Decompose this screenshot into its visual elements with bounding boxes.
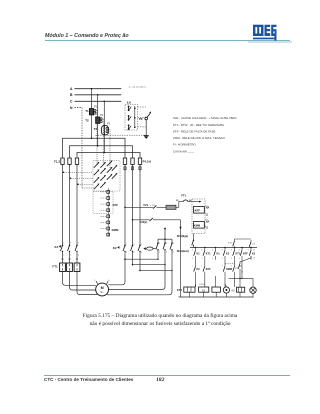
wire right branch down to motor	[107, 253, 172, 295]
junction dots on tee runs	[91, 137, 105, 153]
fuse F22 control tap	[132, 218, 153, 224]
svg-text:3 ~ 60 Hz 380 V: 3 ~ 60 Hz 380 V	[129, 86, 147, 89]
WEG logo	[253, 24, 277, 42]
svg-text:SH1(liga): SH1(liga)	[177, 234, 188, 238]
wire branches down to coils	[196, 260, 243, 287]
wire neutral dashed elbow into selector	[82, 187, 93, 189]
current transformer T1	[85, 106, 97, 115]
svg-text:CAIXA AW ____: CAIXA AW ____	[173, 149, 194, 153]
svg-text:4: 4	[192, 258, 193, 260]
svg-text:SH1(desl): SH1(desl)	[177, 249, 189, 253]
selector switch tangle dashed enclosure	[93, 161, 120, 192]
node B (phase bus B)	[70, 93, 121, 97]
svg-text:K2: K2	[226, 253, 230, 256]
node A (phase bus A)	[70, 87, 121, 91]
wire dashed links SH1 to PF terminal	[96, 107, 146, 135]
wire F22 down to control neutral rail	[153, 220, 182, 297]
svg-text:4: 4	[231, 258, 232, 260]
svg-text:1: 1	[63, 242, 64, 244]
svg-text:KT1: KT1	[177, 288, 182, 292]
svg-text:5: 5	[173, 243, 174, 245]
svg-text:3: 3	[192, 250, 193, 252]
svg-text:P1: P1	[107, 123, 111, 126]
svg-text:KMM: KMM	[226, 268, 232, 271]
svg-text:SH1 - CHAVE LIGA-DESL. + SINAL: SH1 - CHAVE LIGA-DESL. + SINAL.GHSE 18HD	[173, 116, 236, 120]
isolator switch linkage symbol	[143, 247, 155, 250]
svg-text:K1: K1	[197, 253, 201, 256]
svg-text:4: 4	[239, 258, 240, 260]
switch SH1 pole contacts	[128, 106, 136, 131]
node N (neutral, dashed)	[70, 106, 82, 110]
svg-text:KT1: KT1	[235, 268, 240, 270]
svg-text:3~: 3~	[100, 290, 104, 294]
svg-text:3: 3	[248, 250, 249, 252]
svg-text:1: 1	[222, 265, 223, 267]
wire FT1 outputs to motor	[63, 272, 98, 295]
header rule	[45, 40, 290, 41]
contactor coil K1	[199, 284, 209, 297]
wire phase B drop	[97, 94, 99, 146]
svg-text:K2: K2	[252, 253, 256, 256]
svg-text:KT1: KT1	[228, 243, 233, 245]
svg-text:P1: P1	[94, 106, 98, 109]
wire neutral dashed drop	[81, 107, 83, 188]
svg-text:1: 1	[126, 244, 127, 246]
ladder second contacts row	[192, 260, 234, 276]
svg-text:FT1: FT1	[181, 193, 186, 197]
timer coil KT1	[177, 284, 196, 297]
svg-text:K1: K1	[217, 253, 221, 256]
svg-text:6: 6	[141, 252, 142, 254]
svg-text:KFF: KFF	[206, 268, 211, 271]
svg-text:4: 4	[222, 258, 223, 260]
svg-text:3: 3	[70, 242, 71, 244]
svg-text:3: 3	[239, 250, 240, 252]
node C (phase bus C)	[70, 100, 121, 104]
switch SH1 dashed enclosure	[125, 105, 138, 131]
contactor coil K2	[232, 287, 245, 297]
svg-text:K2: K2	[252, 243, 255, 245]
svg-text:K2: K2	[113, 246, 117, 250]
relay KFF (phase-fault relay)	[194, 207, 205, 214]
switch SH1 control contacts	[177, 234, 194, 253]
fuse group F4,5,6	[123, 157, 151, 165]
timed contact KT1 on lamp branch	[229, 250, 255, 288]
page number	[156, 377, 164, 383]
footer rule	[44, 375, 290, 376]
svg-text:2: 2	[159, 251, 160, 253]
svg-text:4: 4	[133, 252, 134, 254]
svg-text:K1: K1	[55, 245, 59, 249]
svg-text:4: 4	[201, 258, 202, 260]
ladder branch contacts row	[192, 247, 256, 260]
auxiliary relay coil	[212, 287, 221, 297]
svg-text:FI - HORIMETRO: FI - HORIMETRO	[173, 143, 197, 147]
caption line 2	[0, 321, 320, 327]
wire control bottom rail	[179, 296, 254, 298]
terminal strip to KFF/KMM	[107, 188, 110, 236]
svg-text:K2: K2	[232, 289, 236, 292]
svg-text:14: 14	[253, 258, 255, 260]
wire phase B tee run	[70, 146, 133, 158]
wire CT secondary dashed links	[94, 110, 110, 168]
svg-text:F21: F21	[144, 203, 149, 207]
relay KMM (min-max voltage relay)	[194, 222, 205, 229]
wire F4,5,6 outputs down to K2	[124, 164, 141, 243]
svg-text:1: 1	[231, 265, 232, 267]
isolator switch poles	[156, 228, 174, 254]
relay terminals NA/C labels	[205, 206, 210, 230]
svg-text:NA: NA	[206, 207, 210, 210]
legend text block	[173, 116, 236, 153]
svg-text:T1: T1	[85, 109, 89, 113]
timed contact dashed linkage	[225, 263, 235, 265]
wire phase C drop	[104, 101, 106, 153]
svg-text:A: A	[70, 87, 73, 91]
svg-text:C: C	[70, 100, 73, 104]
svg-text:F4,5,6: F4,5,6	[143, 160, 152, 164]
svg-text:1: 1	[201, 265, 202, 267]
svg-text:4: 4	[166, 251, 167, 253]
svg-text:3: 3	[212, 250, 213, 252]
wire phase A drop	[91, 88, 93, 138]
svg-text:13: 13	[253, 250, 255, 252]
svg-text:C: C	[206, 215, 208, 217]
phase voltage taps to selector	[63, 172, 93, 186]
footer left text	[44, 377, 133, 382]
svg-text:NA: NA	[206, 220, 210, 223]
svg-text:88: 88	[241, 272, 243, 274]
svg-text:1: 1	[159, 243, 160, 245]
caption line 1	[0, 313, 320, 319]
svg-text:4: 4	[212, 258, 213, 260]
wire phase C tee run	[77, 153, 140, 158]
wire PF down to ground	[145, 120, 147, 136]
svg-text:KMM: KMM	[112, 228, 119, 232]
svg-text:KFF: KFF	[113, 203, 119, 207]
svg-text:6: 6	[108, 280, 110, 282]
wire phase A tee run	[63, 138, 126, 157]
svg-text:3: 3	[222, 250, 223, 252]
contacts above rail right side	[228, 239, 256, 248]
svg-text:2: 2	[63, 254, 64, 256]
wire K2 outputs join switch outputs	[124, 253, 173, 272]
svg-text:B: B	[70, 93, 73, 97]
svg-text:3: 3	[201, 250, 202, 252]
light blue band under logo	[248, 41, 292, 43]
selector switch contact grid	[94, 160, 118, 189]
pilot lamp H1	[250, 287, 256, 297]
svg-text:2: 2	[126, 252, 127, 254]
contactor K2 main contacts	[113, 243, 142, 254]
svg-text:KFF: KFF	[195, 209, 201, 213]
wire control top rail	[190, 247, 257, 249]
header module title	[45, 33, 129, 39]
svg-text:5: 5	[78, 242, 79, 244]
overload relay FT1 heaters	[52, 253, 80, 271]
wire dashed metering rectangle	[93, 192, 113, 214]
overload contact FT1 95-96	[176, 193, 201, 207]
svg-text:PF: PF	[139, 117, 143, 121]
svg-text:4: 4	[70, 254, 71, 256]
svg-text:P1: P1	[100, 114, 104, 117]
svg-text:C: C	[206, 228, 208, 230]
svg-text:KT1 - RTW - 30 - SEE TIU TERE/: KT1 - RTW - 30 - SEE TIU TERE/SABA	[173, 123, 224, 127]
relay box dashed enclosure	[192, 199, 205, 234]
svg-text:T2: T2	[85, 119, 89, 123]
current transformer T2	[85, 114, 104, 123]
svg-text:3: 3	[166, 243, 167, 245]
svg-text:3: 3	[231, 250, 232, 252]
siren/horn H	[223, 284, 229, 297]
fuse group F1,2,3	[54, 157, 79, 165]
svg-text:KFF: KFF	[243, 253, 248, 256]
svg-text:FT1: FT1	[52, 264, 58, 268]
svg-text:KFF - RELE DE FALTA DE FASE: KFF - RELE DE FALTA DE FASE	[173, 130, 216, 134]
svg-text:KMM: KMM	[194, 224, 200, 228]
ground	[144, 136, 149, 139]
svg-text:KT1: KT1	[206, 253, 211, 256]
svg-text:KMM - RELE DE MIN. E MAX. TENS: KMM - RELE DE MIN. E MAX. TENSAO	[173, 136, 226, 140]
svg-text:F22(x): F22(x)	[140, 221, 148, 224]
motor M 3~	[94, 280, 110, 296]
svg-text:K1: K1	[202, 288, 206, 292]
wire relay box to SH1 ladder feed	[193, 234, 195, 239]
svg-text:1: 1	[192, 265, 193, 267]
svg-text:6: 6	[78, 254, 79, 256]
svg-text:3,8: 3,8	[127, 101, 132, 105]
terminal PF with arrow	[139, 111, 151, 121]
svg-text:a T21: a T21	[150, 205, 156, 207]
svg-text:5: 5	[141, 244, 142, 246]
fuse F21 control tap	[124, 203, 176, 210]
svg-text:13/14: 13/14	[199, 284, 205, 286]
svg-text:3: 3	[133, 244, 134, 246]
current transformer T3	[94, 123, 111, 135]
contactor K1 main contacts	[55, 242, 79, 256]
wire F1,2,3 outputs down to K1	[63, 164, 78, 243]
svg-text:6: 6	[173, 251, 174, 253]
wire dashed links strip to relays	[101, 192, 107, 229]
svg-text:N: N	[70, 106, 73, 110]
svg-text:K2: K2	[197, 268, 201, 271]
